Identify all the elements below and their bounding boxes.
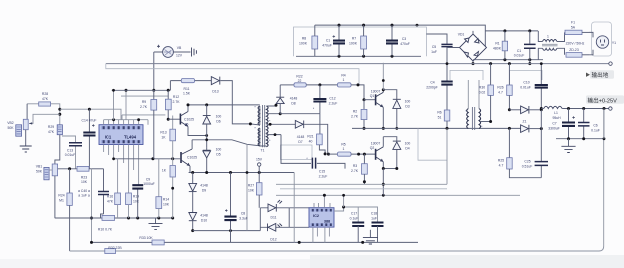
resistor R33 10K <box>139 236 164 245</box>
transistor Q3 C1025 <box>168 105 208 137</box>
svg-text:2200pF: 2200pF <box>426 85 438 89</box>
svg-text:0.02: 0.02 <box>479 90 486 94</box>
capacitor C10 0.01uF <box>520 62 548 128</box>
svg-text:R24: R24 <box>58 194 64 198</box>
svg-text:50K: 50K <box>7 126 14 130</box>
wire IC1 bottom pin stubs <box>104 145 139 194</box>
svg-text:输出地: 输出地 <box>592 71 609 79</box>
svg-text:IC1: IC1 <box>105 135 112 140</box>
resistor R10 0.7K <box>98 215 115 231</box>
node R29 column dots <box>58 108 61 111</box>
transistor Q2 13007 <box>370 137 384 169</box>
svg-text:D8: D8 <box>291 101 295 105</box>
svg-text:*: * <box>269 120 271 124</box>
svg-text:10K: 10K <box>133 199 140 203</box>
capacitor C1 0.01uF mains <box>514 31 536 60</box>
op-amp IC1 TL494 <box>99 125 143 145</box>
ground IC2 <box>363 230 378 244</box>
svg-text:*: * <box>313 107 315 111</box>
capacitor C16 <box>98 169 109 218</box>
terminal output plus <box>609 107 612 110</box>
svg-text:100K: 100K <box>299 42 308 46</box>
svg-text:4148: 4148 <box>200 184 208 188</box>
svg-text:R29: R29 <box>48 125 54 129</box>
svg-text:R21: R21 <box>307 135 313 139</box>
wire light return y=188.8 <box>280 188 447 190</box>
svg-text:M1: M1 <box>59 198 64 202</box>
resistor R29 47K <box>48 125 63 164</box>
svg-text:R2: R2 <box>353 110 357 114</box>
svg-text:ZD-23: ZD-23 <box>569 48 579 52</box>
wire T1 secondary taps <box>260 105 296 146</box>
svg-text:输出+0-25V: 输出+0-25V <box>588 96 618 104</box>
resistor R11 1.5K <box>181 79 194 96</box>
bridge rectifier VD1 <box>447 33 487 64</box>
svg-text:10K: 10K <box>163 202 170 206</box>
wire loop box right edge <box>246 144 248 230</box>
svg-text:C25: C25 <box>524 160 530 164</box>
svg-text:100: 100 <box>405 100 411 104</box>
wire VB2 wiper y=114.3 <box>29 114 60 123</box>
svg-text:D12: D12 <box>270 238 276 242</box>
svg-text:13007: 13007 <box>371 142 381 146</box>
node output <box>540 107 543 110</box>
wire inner supply rail y=68.7 <box>106 64 359 85</box>
svg-text:100: 100 <box>216 148 222 152</box>
svg-text:1K: 1K <box>162 169 167 173</box>
wire emitter rail y=172.5 <box>189 172 295 174</box>
svg-text:C1025: C1025 <box>187 155 197 159</box>
svg-text:*: * <box>254 127 256 131</box>
svg-text:C5: C5 <box>432 45 436 49</box>
wire IC1 top pin rail <box>104 120 148 125</box>
resistor R30 0.02 <box>479 64 494 123</box>
svg-text:C9: C9 <box>146 178 150 182</box>
svg-text:VD1: VD1 <box>458 33 465 37</box>
diode D5 100 <box>203 148 222 173</box>
resistor R14 10K <box>156 159 170 218</box>
svg-text:2.2uF: 2.2uF <box>329 101 338 105</box>
svg-text:1: 1 <box>343 78 345 82</box>
svg-text:95uH: 95uH <box>552 116 561 120</box>
battery VB 12V <box>157 45 183 58</box>
svg-text:2.2uF: 2.2uF <box>319 174 328 178</box>
svg-text:Q2: Q2 <box>370 146 375 150</box>
svg-text:C17: C17 <box>351 212 357 216</box>
svg-text:0.01uF: 0.01uF <box>65 153 76 157</box>
svg-text:22: 22 <box>298 79 302 83</box>
capacitor C20 1uF cluster <box>78 189 90 198</box>
diode D1 <box>509 106 542 114</box>
svg-text:R9: R9 <box>142 100 146 104</box>
svg-text:D7: D7 <box>298 140 302 144</box>
wire VB1 wiper y=168.8 <box>58 168 77 170</box>
transistor Q4 C1025 <box>181 140 198 173</box>
wire IC feed y=109.2 <box>60 109 121 120</box>
fuse F1 5A <box>565 21 589 35</box>
background bottom band <box>0 259 624 268</box>
svg-text:R32 22B: R32 22B <box>108 246 122 250</box>
resistor R4 1 <box>338 74 365 100</box>
capacitor C3 470uF <box>386 25 410 56</box>
svg-text:C15: C15 <box>319 170 325 174</box>
wire battery leads <box>154 51 191 53</box>
svg-text:4148: 4148 <box>200 214 208 218</box>
svg-text:50K: 50K <box>36 169 43 173</box>
svg-text:3300uF: 3300uF <box>548 126 560 130</box>
wire IC2 right <box>334 207 378 222</box>
wire bus B y=242.4 <box>92 241 419 243</box>
svg-text:R3: R3 <box>353 164 357 168</box>
wire IC2 bottom pins <box>313 227 330 242</box>
node ground bus dots <box>489 62 492 65</box>
capacitor C7 3300uF <box>548 109 575 139</box>
diode D2 Z1 <box>508 120 543 133</box>
resistor R15 1K <box>162 159 175 218</box>
svg-text:R33 10K: R33 10K <box>139 236 153 240</box>
plug ZD-23 <box>566 48 589 57</box>
ground at battery <box>192 48 197 57</box>
ground under VB2 <box>20 146 32 152</box>
svg-text:C13: C13 <box>67 149 73 153</box>
wire bus C y=251 <box>70 109 604 252</box>
wire aux block light box <box>294 25 427 56</box>
capacitor C14 47uF <box>82 109 97 169</box>
transistor Q1 13007 <box>364 90 383 129</box>
wire main ground bus y=63.6 <box>106 63 609 65</box>
svg-text:47K: 47K <box>42 97 49 101</box>
wire feedback column x=91.5 <box>91 169 93 243</box>
resistor R5 1 <box>338 143 376 157</box>
capacitor C17 0.1uF <box>350 212 365 243</box>
wire bus1 y=184.3 <box>276 183 447 185</box>
svg-text:2.7K: 2.7K <box>140 105 148 109</box>
transformer T1 <box>249 105 271 153</box>
svg-text:1uF: 1uF <box>431 50 437 54</box>
svg-text:R19: R19 <box>133 195 139 199</box>
node rail dots <box>338 24 341 27</box>
svg-text:C3: C3 <box>402 37 406 41</box>
diode D13 <box>211 77 250 124</box>
svg-text:R4: R4 <box>341 74 345 78</box>
wire battery positive drop <box>153 52 155 90</box>
resistor R26 4.7 <box>497 64 512 112</box>
svg-text:R16: R16 <box>107 195 113 199</box>
svg-text:1K: 1K <box>161 135 166 139</box>
svg-text:100: 100 <box>405 142 411 146</box>
resistor R32 22B <box>105 246 123 254</box>
label output ground <box>586 70 614 79</box>
node bridge bottom to bus <box>472 62 475 65</box>
svg-text:470uF: 470uF <box>322 44 332 48</box>
ground output <box>568 139 570 146</box>
resistor R6 51 <box>437 110 449 184</box>
svg-text:C1025: C1025 <box>184 118 194 122</box>
ground under bus A <box>155 218 157 223</box>
resistor R13 1K <box>160 116 175 159</box>
svg-text:R23: R23 <box>81 176 87 180</box>
svg-text:1.5K: 1.5K <box>183 92 191 96</box>
wire aux block bottom y=56.3 <box>296 55 421 57</box>
svg-text:R14: R14 <box>163 198 169 202</box>
svg-text:13007: 13007 <box>371 90 381 94</box>
svg-text:C8: C8 <box>241 212 245 216</box>
wire T1 primary top y=104.9 <box>188 104 260 106</box>
svg-text:*: * <box>269 139 271 143</box>
svg-text:470uF: 470uF <box>400 42 410 46</box>
potentiometer VB2 50K <box>7 104 28 146</box>
wire Q4 collector to T1 bottom <box>192 140 260 146</box>
svg-text:C1: C1 <box>326 39 330 43</box>
diode D10 4148 <box>189 213 208 233</box>
wire output bottom y=138.7 <box>556 138 604 140</box>
svg-text:R1: R1 <box>495 42 499 46</box>
svg-text:R7: R7 <box>352 37 356 41</box>
svg-text:R5: R5 <box>341 143 345 147</box>
svg-text:480K: 480K <box>493 47 502 51</box>
svg-text:VB: VB <box>177 46 182 50</box>
wire snubber box light <box>418 128 447 160</box>
svg-text:D4: D4 <box>405 146 409 150</box>
svg-text:0.1uF: 0.1uF <box>350 216 359 220</box>
svg-text:F1: F1 <box>571 21 575 25</box>
svg-text:VB2: VB2 <box>7 121 14 125</box>
wire Q2 emitter rail y=168.5 <box>383 168 397 170</box>
resistor R22 22 <box>280 75 337 88</box>
svg-text:4148: 4148 <box>290 97 298 101</box>
capacitor C9 1000uF <box>132 178 154 219</box>
wire IC2 top pins <box>314 195 330 207</box>
svg-text:Q1: Q1 <box>370 94 375 98</box>
svg-text:45: 45 <box>185 123 189 127</box>
svg-text:*: * <box>306 157 308 161</box>
capacitor C8 3.3uF <box>224 173 247 243</box>
wire aux top rail y=25 <box>315 25 486 46</box>
capacitor C4 2200pF <box>426 62 452 110</box>
svg-text:15V: 15V <box>256 158 263 162</box>
wire collector column <box>382 63 384 90</box>
capacitor C1 470uF <box>322 25 345 56</box>
svg-text:C18: C18 <box>371 212 377 216</box>
svg-text:R26: R26 <box>497 86 503 90</box>
inductor L1 95uH <box>541 106 608 120</box>
capacitor C25 0.51uF <box>522 129 548 178</box>
svg-text:1: 1 <box>343 147 345 151</box>
resistor R23 10K <box>77 166 104 184</box>
svg-text:R27: R27 <box>248 184 254 188</box>
svg-text:R11: R11 <box>184 87 190 91</box>
svg-text:Y1: Y1 <box>612 41 616 45</box>
wire D8 to C12 y=113.7 <box>280 113 320 115</box>
wire riser to supply <box>114 90 169 119</box>
terminal output ground <box>609 62 612 65</box>
wire bus A y=218 <box>55 217 173 219</box>
capacitor C18 1uF <box>371 212 384 243</box>
wire T2 top light boxes <box>450 70 542 80</box>
svg-text:R30: R30 <box>479 86 485 90</box>
wire snubber box light <box>281 145 313 160</box>
diode D7 4148 <box>295 121 330 156</box>
svg-text:1: 1 <box>547 35 549 39</box>
wire distribution y=158.8 <box>114 158 181 160</box>
wire to optocoupler y=230.6 <box>193 230 261 232</box>
diode D12 <box>260 224 309 242</box>
svg-text:D10: D10 <box>201 218 207 222</box>
svg-text:4.7: 4.7 <box>498 90 503 94</box>
svg-text:C6: C6 <box>593 124 597 128</box>
wire R11 rail y=80.6 <box>170 81 211 91</box>
capacitor C15 2.2uF <box>281 135 345 179</box>
svg-text:4148: 4148 <box>297 135 305 139</box>
svg-text:D3: D3 <box>405 104 409 108</box>
svg-text:*: * <box>254 106 256 110</box>
svg-text:3.3uF: 3.3uF <box>239 216 248 220</box>
svg-text:10K: 10K <box>248 188 255 192</box>
diode D4 <box>383 137 410 169</box>
svg-text:1uF: 1uF <box>371 216 377 220</box>
svg-text:C7: C7 <box>552 122 556 126</box>
diode D6 100 <box>203 105 222 148</box>
svg-text:D5: D5 <box>216 152 220 156</box>
resistor R21 40 <box>307 114 326 156</box>
diode D8 4148 <box>276 85 297 114</box>
wire opto to bus <box>293 173 295 243</box>
svg-text:C10: C10 <box>523 81 529 85</box>
wire bottom bus2 y=195.3 <box>276 194 520 196</box>
resistor R19 10K <box>126 193 140 218</box>
svg-text:R28: R28 <box>42 92 48 96</box>
svg-text:R6: R6 <box>437 111 441 115</box>
svg-text:R12: R12 <box>173 95 179 99</box>
resistor R9 2.7K <box>140 90 157 159</box>
node battery drop junction <box>152 89 155 92</box>
svg-text:D11: D11 <box>271 216 277 220</box>
wire mains bottom rail y=59.7 <box>473 59 543 61</box>
wire output sense column <box>603 109 605 139</box>
inductor L2 line filter choke <box>538 31 564 60</box>
wire optocoupler loop sides <box>260 208 289 231</box>
resistor R8 100K <box>299 25 318 56</box>
resistor R3 2.7K <box>351 154 367 184</box>
svg-text:Z1: Z1 <box>523 120 527 124</box>
svg-text:R13: R13 <box>160 131 166 135</box>
resistor R12 2.7K <box>165 90 180 120</box>
wire mains mid rail y=30.9 <box>473 31 538 34</box>
svg-text:D6: D6 <box>216 119 220 123</box>
svg-text:1000uF: 1000uF <box>143 182 155 186</box>
svg-text:10K: 10K <box>81 180 88 184</box>
svg-text:IC2: IC2 <box>313 214 319 218</box>
wire VB2 top feed <box>27 104 60 125</box>
wire Q2 base rail y=154.1 <box>329 153 338 155</box>
svg-text:12V: 12V <box>176 54 183 58</box>
transformer T2 <box>465 80 490 130</box>
wire cell mid rail y=128.4 <box>352 127 521 129</box>
svg-text:C12: C12 <box>329 97 335 101</box>
svg-text:51: 51 <box>438 115 442 119</box>
label output voltage <box>586 95 624 104</box>
svg-text:R25: R25 <box>498 159 504 163</box>
svg-text:0.1uF: 0.1uF <box>591 128 600 132</box>
svg-text:L1: L1 <box>554 111 558 115</box>
svg-text:T1: T1 <box>261 149 265 153</box>
resistor R1 480K <box>493 31 508 60</box>
svg-text:D9: D9 <box>202 188 206 192</box>
wire supply rail y=90.3 <box>112 89 171 91</box>
svg-text:R22: R22 <box>296 75 302 79</box>
svg-text:100K: 100K <box>349 42 358 46</box>
svg-text:2.7K: 2.7K <box>351 114 359 118</box>
svg-text:2.7K: 2.7K <box>173 100 181 104</box>
svg-text:220V / 50Hz: 220V / 50Hz <box>566 42 585 46</box>
svg-text:D13: D13 <box>212 90 218 94</box>
svg-text:0.01uF: 0.01uF <box>520 85 531 89</box>
svg-text:R8: R8 <box>302 37 306 41</box>
diode D11 <box>260 200 309 220</box>
svg-text:0.01uF: 0.01uF <box>514 54 525 58</box>
svg-text:TL494: TL494 <box>124 135 137 140</box>
capacitor C13 0.01uF <box>62 136 82 169</box>
svg-text:0.51uF: 0.51uF <box>522 164 533 168</box>
potentiometer VB1 50K <box>36 164 58 218</box>
op-amp IC2 <box>309 208 334 227</box>
svg-text:a C40 a: a C40 a <box>78 189 90 193</box>
node mains-bus tie <box>529 60 531 64</box>
resistor R7 100K <box>349 25 366 56</box>
svg-text:47K: 47K <box>107 199 114 203</box>
socket Y1 220V <box>589 22 616 56</box>
resistor R16 47K <box>107 159 121 218</box>
capacitor C5 1uF <box>426 34 452 67</box>
capacitor C6 0.1uF <box>578 109 600 139</box>
svg-text:a 1uF a: a 1uF a <box>78 194 90 198</box>
terminal 15V <box>256 158 263 173</box>
svg-text:4.7: 4.7 <box>499 163 504 167</box>
svg-text:C14 47uF: C14 47uF <box>82 119 97 123</box>
svg-text:388: 388 <box>324 219 330 223</box>
diode D3 <box>382 88 411 130</box>
resistor R28 47K <box>39 92 51 106</box>
resistor R2 2.7K <box>351 98 367 130</box>
capacitor C12 2.2uF <box>313 85 337 114</box>
svg-text:2.7K: 2.7K <box>351 169 359 173</box>
svg-text:47K: 47K <box>48 130 55 134</box>
svg-text:R10 0.7K: R10 0.7K <box>98 228 113 232</box>
resistor R25 4.7 <box>498 128 541 177</box>
resistor R24 1M <box>58 169 72 251</box>
svg-text:40: 40 <box>309 139 313 143</box>
svg-text:100: 100 <box>216 115 222 119</box>
node bus A dots <box>127 217 130 220</box>
svg-text:5A: 5A <box>571 26 576 30</box>
resistor R27 10K <box>248 173 262 208</box>
diode D9 4148 <box>189 173 208 213</box>
svg-text:VB1: VB1 <box>36 165 43 169</box>
svg-text:C4: C4 <box>430 81 434 85</box>
svg-text:C1: C1 <box>517 49 521 53</box>
